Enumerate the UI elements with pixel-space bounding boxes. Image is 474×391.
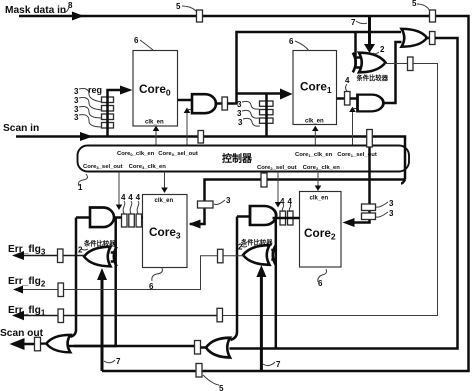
wire scan out OR from buffer	[41, 342, 48, 344]
wire scan drop to Core2	[354, 137, 370, 223]
arrowhead into Core2 XOR bottom	[256, 265, 266, 277]
arrowhead sel Core3	[116, 205, 123, 211]
arrowhead clk_en Core1	[312, 126, 319, 131]
arrowhead clk_en Core2	[315, 186, 322, 192]
svg-text:条件比较器: 条件比较器	[241, 238, 273, 247]
label 6 Core0	[134, 36, 153, 50]
and-gate Core3	[90, 208, 114, 228]
label 4 Core1 buffer	[345, 76, 350, 91]
svg-text:clk_en: clk_en	[145, 120, 164, 126]
or-gate scan out	[46, 335, 70, 352]
registers Core1 scan chain	[260, 101, 274, 123]
svg-text:3: 3	[238, 118, 243, 127]
labels 4 Core3 registers	[121, 193, 141, 214]
svg-text:4: 4	[345, 76, 350, 85]
label 2 comparator Core2	[238, 243, 247, 252]
label 6 Core3	[149, 268, 162, 291]
wire Core3 AND feed vertical	[71, 218, 77, 337]
arrowhead sel Core1	[349, 107, 356, 112]
core box Core3	[143, 195, 188, 268]
svg-text:3: 3	[226, 196, 231, 205]
svg-text:3: 3	[389, 199, 394, 208]
registers 3 right of Core2	[362, 204, 376, 220]
svg-text:3: 3	[237, 100, 242, 109]
arrowhead into Core1	[280, 89, 293, 100]
arrowhead scan in	[80, 132, 93, 141]
xor-gate comparator Core1	[353, 53, 386, 73]
buffer Err_flg1 left	[58, 309, 64, 323]
wire Err_flg1 left	[16, 315, 218, 317]
wire Core3 clk_en from controller	[164, 172, 166, 189]
wire up arrow into Core3 XOR	[101, 279, 104, 371]
wire Core0 AND lower input stub	[187, 109, 192, 111]
core box Core0	[133, 51, 178, 127]
wire buffer to Core1 AND	[350, 97, 357, 100]
buffer 4 right of Core1	[345, 92, 351, 106]
svg-text:条件比较器: 条件比较器	[357, 73, 389, 82]
wire Core3 sel from controller	[118, 172, 120, 206]
wire OR to buffer	[425, 37, 429, 40]
wire Core1 AND lower input stub	[353, 108, 358, 110]
svg-text:clk_en: clk_en	[155, 198, 174, 204]
and-gate Core0 output	[192, 94, 216, 113]
wire OR output down right side	[230, 38, 458, 349]
buffer on comparator1 output	[408, 57, 414, 71]
label 7 top	[351, 18, 367, 27]
labels 3 Core2 registers	[376, 199, 394, 218]
buffer Err_flg2 left	[58, 283, 64, 297]
core box Core2	[300, 192, 342, 268]
svg-text:3: 3	[74, 87, 79, 96]
buffer on scan distribution line	[261, 173, 267, 187]
registers Core0 scan chain	[102, 97, 114, 128]
wire Core2 AND feed vertical	[231, 217, 238, 341]
wire Core2 clk_en from controller	[317, 172, 319, 187]
wire AND to buffer	[215, 102, 223, 105]
labels 3 for Core1 registers	[237, 100, 260, 127]
labels 3 for Core0 registers	[74, 87, 102, 127]
buffer after Core0 AND	[222, 97, 228, 110]
wire Core1 AND output to OR	[383, 42, 402, 103]
wire Core1 to buffer 4	[337, 97, 345, 100]
wire Core1 clk_en from controller	[314, 130, 316, 146]
or-gate center bottom	[206, 338, 230, 358]
svg-text:reg: reg	[88, 85, 102, 95]
wire scan out	[20, 343, 34, 346]
svg-text:clk_en: clk_en	[310, 196, 329, 202]
svg-text:3: 3	[74, 96, 79, 105]
svg-text:Scan in: Scan in	[3, 123, 39, 134]
wire scan distribution line	[190, 180, 405, 225]
svg-text:3: 3	[74, 113, 79, 122]
wire XOR Core1 output to Err_flg1	[385, 63, 407, 65]
arrowhead into Core2 right	[343, 218, 355, 227]
label 7 lower center	[263, 360, 281, 369]
wire Core2 AND output to core	[273, 217, 300, 220]
wire Core1 register chain vertical	[265, 94, 268, 137]
label 7 lower left	[104, 357, 121, 366]
buffer after top OR	[430, 32, 436, 45]
buffer on bottom return line	[196, 364, 202, 378]
wire up arrow into Core2 XOR	[260, 276, 263, 371]
label 5 right	[412, 0, 430, 11]
wire mask to Core1 XOR	[368, 16, 371, 45]
svg-text:4: 4	[280, 197, 285, 206]
svg-text:5: 5	[176, 2, 181, 11]
svg-text:3: 3	[389, 209, 394, 218]
label 5 left	[176, 2, 196, 11]
svg-text:2: 2	[380, 45, 385, 54]
svg-text:5: 5	[412, 0, 417, 8]
arrowhead sel Core0	[184, 108, 191, 114]
svg-text:控制器: 控制器	[222, 152, 253, 165]
buffer 5 on mask line right	[430, 10, 436, 22]
svg-text:6: 6	[289, 37, 294, 46]
label 1 controller	[78, 174, 87, 192]
svg-text:6: 6	[134, 36, 139, 45]
wire XOR Core1 left inputs	[356, 32, 361, 68]
buffer 5 on mask line left	[197, 10, 203, 22]
arrowhead scan out	[10, 338, 25, 350]
wire Core0 sel from controller to AND	[186, 112, 188, 146]
arrowhead clk_en Core0	[153, 126, 160, 131]
controller box	[78, 146, 410, 172]
arrowhead into Core3 XOR bottom	[97, 268, 107, 280]
wire Core1 sel from controller to AND	[352, 111, 354, 146]
svg-text:7: 7	[116, 357, 121, 366]
wire Core0 to AND input	[178, 99, 193, 102]
arrowhead clk_en Core3	[161, 188, 168, 194]
svg-text:条件比较器: 条件比较器	[84, 239, 116, 248]
registers 4 left of Core3	[122, 214, 142, 227]
wire Core0 clk_en from controller	[155, 130, 157, 146]
xor-gate comparator Core2	[243, 245, 276, 265]
and-gate Core1	[358, 95, 384, 112]
svg-text:6: 6	[318, 279, 323, 288]
arrowhead Err_flg3	[12, 251, 24, 260]
label 5 bottom	[203, 375, 224, 391]
svg-text:7: 7	[276, 360, 281, 369]
register 3 above Core3	[198, 201, 214, 208]
arrowhead Err_flg2	[13, 286, 23, 294]
xor-gate comparator Core3	[84, 247, 117, 267]
wire scanout OR bottom input from center OR	[68, 345, 195, 348]
arrowhead Err_flg1	[12, 311, 24, 321]
svg-text:Err_flg2: Err_flg2	[8, 276, 46, 289]
wire scan in line	[16, 137, 405, 180]
svg-text:3: 3	[237, 109, 242, 118]
wire center OR output	[201, 346, 208, 349]
svg-text:7: 7	[351, 18, 356, 27]
wire Core2 comparator tap vertical	[271, 218, 276, 349]
label 3 register Core3	[214, 196, 231, 205]
bus width label 8	[61, 1, 73, 12]
wire Err_flg3	[18, 255, 85, 257]
svg-text:4: 4	[136, 193, 141, 202]
core box Core1	[293, 51, 337, 125]
registers 4 left of Core2	[280, 211, 293, 225]
buffer center OR output	[195, 341, 201, 355]
label 6 Core2	[318, 269, 327, 288]
svg-text:Core0_clk_enCore0_sel_out: Core0_clk_enCore0_sel_out	[117, 151, 198, 157]
wire scan distribution hook	[401, 180, 405, 184]
svg-text:Err_flg3: Err_flg3	[8, 244, 46, 257]
wire Core3 AND output to registers	[114, 216, 144, 219]
and-gate Core2	[250, 206, 276, 225]
wire into Core3 AND	[76, 216, 90, 219]
wire Core0 AND output loop up	[228, 32, 402, 104]
buffer on scan line	[198, 131, 204, 144]
wire comparator1 to Err_flg1 line	[217, 64, 438, 316]
wire Err_flg2	[17, 256, 244, 290]
arrowhead into Core3 right	[189, 220, 201, 229]
or-gate top right	[402, 29, 428, 47]
wire Core3 comparator tap	[74, 218, 116, 347]
arrowhead mask data	[72, 12, 84, 21]
svg-text:5: 5	[219, 384, 224, 391]
wire branch to Core1 input	[237, 92, 282, 95]
svg-text:4: 4	[128, 193, 133, 202]
buffer Err_flg1 right	[217, 308, 223, 322]
svg-text:Mask data in: Mask data in	[5, 5, 66, 16]
wire into Core2 AND	[237, 215, 250, 218]
label 2 comparator Core3	[78, 246, 88, 255]
arrowhead into Core0	[120, 86, 133, 95]
labels 4 Core2 registers	[280, 197, 293, 212]
buffer Err_flg3	[58, 249, 64, 263]
arrowhead mask into XOR	[364, 44, 375, 53]
buffer Err_flg2 right	[218, 249, 224, 262]
label 2 Core1 comparator	[373, 45, 385, 54]
label 6 Core1	[289, 37, 309, 51]
buffer scan out	[35, 337, 41, 351]
arrowhead sel Core2	[275, 202, 282, 208]
wire Core2 sel from controller	[277, 172, 279, 203]
svg-text:4: 4	[121, 193, 126, 202]
wire Core0 register chain vertical	[108, 90, 122, 137]
svg-text:clk_en: clk_en	[305, 119, 324, 125]
buffer on Core2 scan drop	[367, 130, 373, 148]
